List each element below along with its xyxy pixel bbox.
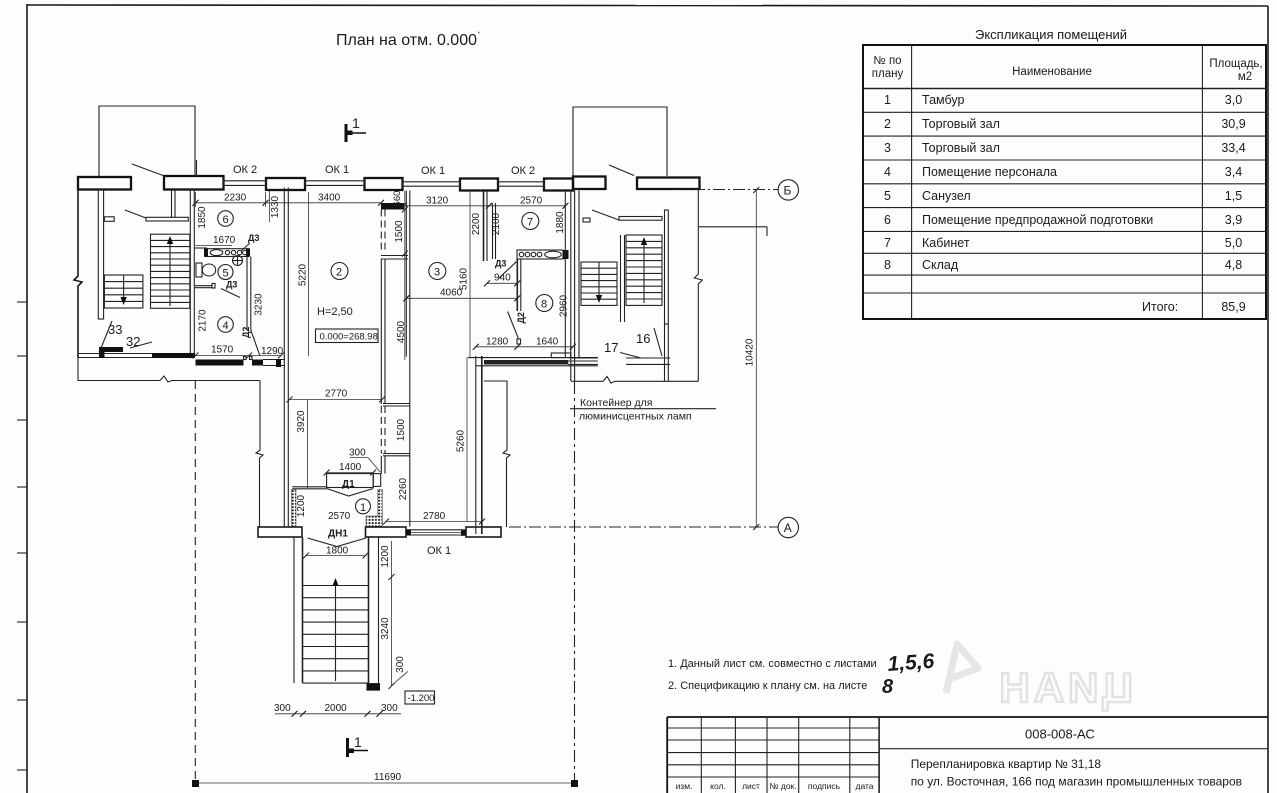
title block column labels: [676, 781, 874, 791]
svg-text:2960: 2960: [559, 294, 570, 317]
svg-text:2100: 2100: [491, 212, 502, 235]
svg-text:Торговый зал: Торговый зал: [922, 141, 1000, 155]
svg-text:7: 7: [884, 236, 891, 250]
left canopy outline: [99, 106, 195, 176]
svg-text:1800: 1800: [326, 546, 349, 557]
svg-text:кол.: кол.: [710, 781, 726, 791]
svg-text:1880: 1880: [555, 211, 566, 234]
svg-text:16: 16: [636, 331, 650, 346]
room8 east wall (double): [565, 191, 571, 382]
left canopy inner jamb: [196, 160, 198, 177]
svg-text:6: 6: [223, 214, 229, 226]
room5/6 divider: [195, 247, 207, 249]
svg-text:1200: 1200: [296, 494, 307, 517]
left canopy door swing: [132, 164, 163, 176]
svg-text:3400: 3400: [318, 193, 341, 204]
door D3 leader: [241, 243, 250, 251]
staircase west inner wall: [98, 190, 103, 319]
level mark -1.200: [405, 691, 435, 704]
door D2 swing (room4): [251, 330, 260, 356]
svg-text:3240: 3240: [380, 617, 391, 640]
svg-text:3230: 3230: [254, 293, 265, 316]
right block south wall segment 1: [571, 358, 598, 364]
dim 3920 (vertical): [296, 400, 308, 489]
svg-text:1330: 1330: [270, 195, 281, 218]
svg-text:1: 1: [354, 734, 362, 750]
svg-text:3,0: 3,0: [1225, 93, 1242, 107]
svg-text:люминисцентных ламп: люминисцентных ламп: [579, 411, 692, 423]
svg-text:Д3: Д3: [248, 233, 259, 243]
staircase handrail stub: [583, 218, 590, 222]
svg-text:2230: 2230: [224, 193, 247, 204]
stair left rail: [294, 538, 303, 684]
left stairs up arrow: [167, 236, 173, 306]
room 8 number circle: [536, 295, 553, 312]
svg-text:3: 3: [434, 267, 440, 279]
staircase south wall lines: [78, 354, 195, 358]
axis dim line 10420: [745, 187, 760, 530]
svg-text:1400: 1400: [339, 462, 362, 473]
svg-text:1: 1: [884, 93, 891, 107]
tambour east partition junction (dotted): [366, 516, 382, 527]
section mark 1 (bottom): [348, 734, 369, 757]
room 1 number circle: [356, 499, 371, 514]
svg-text:Д1: Д1: [342, 479, 355, 490]
svg-text:1290: 1290: [261, 346, 284, 357]
svg-text:300: 300: [274, 703, 291, 714]
svg-text:0.000=268.98: 0.000=268.98: [320, 332, 378, 343]
svg-text:3,9: 3,9: [1225, 213, 1242, 227]
door D3 swing (room7/8): [499, 262, 516, 278]
svg-text:11690: 11690: [374, 772, 402, 783]
dim 1800: [303, 546, 369, 559]
axis B dash-dot line: [673, 189, 778, 191]
svg-text:30,9: 30,9: [1221, 117, 1245, 131]
title block grid verticals: [701, 717, 879, 793]
svg-text:1500: 1500: [396, 418, 407, 441]
svg-text:№ док.: № док.: [769, 781, 796, 791]
svg-text:Д2: Д2: [241, 327, 251, 338]
svg-text:4: 4: [223, 320, 229, 332]
room3 extension east wall (double): [476, 356, 482, 534]
svg-text:8: 8: [541, 299, 547, 311]
room2 west wall (double): [284, 188, 288, 527]
tambour north wall lines: [292, 487, 326, 489]
dim 2780: [383, 511, 485, 525]
svg-text:008-008-АС: 008-008-АС: [1025, 727, 1095, 742]
svg-text:85,9: 85,9: [1221, 300, 1245, 314]
svg-text:4060: 4060: [440, 288, 463, 299]
room2 east wall solid mid: [381, 259, 385, 404]
svg-text:Наименование: Наименование: [1012, 66, 1092, 78]
svg-text:33,4: 33,4: [1221, 141, 1245, 155]
dim 1330 (vertical): [270, 191, 282, 222]
dim 2770: [287, 389, 386, 403]
staircase south wall black segment: [152, 353, 195, 358]
table outer border: [863, 45, 1266, 319]
table header texts: [872, 55, 1263, 83]
svg-text:1850: 1850: [197, 206, 208, 229]
level mark box: [316, 329, 379, 343]
handrail stub: [104, 217, 114, 222]
svg-text:-1.200: -1.200: [408, 693, 435, 704]
wall stub at y405: [383, 404, 410, 407]
svg-text:17: 17: [604, 340, 618, 355]
dim 5160 (vertical line): [459, 188, 474, 360]
svg-text:ОК 1: ОК 1: [427, 545, 451, 557]
wall stub at y454: [383, 454, 410, 456]
stair dim line right: [389, 541, 395, 689]
door D1 jamb right: [373, 474, 381, 487]
svg-text:Контейнер для: Контейнер для: [580, 397, 653, 409]
wall pier 2: [164, 176, 224, 190]
dim 1640: [517, 337, 576, 350]
svg-text:4: 4: [884, 165, 891, 179]
svg-text:2. Спецификацию к плану см. на: 2. Спецификацию к плану см. на листе: [668, 680, 867, 692]
leader for 33: [101, 321, 112, 348]
dim 1280: [473, 337, 521, 350]
left stairs lower flight: [104, 275, 142, 308]
window OK2 no.1: [224, 180, 267, 187]
building bottom outline right (with break): [571, 377, 698, 384]
window OK2 no.2: [498, 181, 544, 188]
svg-text:Площадь,: Площадь,: [1209, 58, 1262, 70]
axis A dash-dot line: [509, 526, 778, 528]
svg-text:1670: 1670: [213, 235, 236, 246]
right stairs upper flight: [626, 235, 662, 305]
svg-text:2200: 2200: [471, 212, 482, 235]
dim 3400: [266, 193, 385, 206]
door D1 panel: [327, 474, 374, 488]
porch outline left (with break): [78, 358, 260, 383]
door D2 swing (room8): [508, 312, 519, 340]
wall pier 1: [78, 177, 131, 190]
svg-text:1,5: 1,5: [1225, 189, 1242, 203]
stair stringer: [621, 235, 625, 322]
leader for 16: [654, 328, 662, 356]
wall pier 5: [460, 179, 498, 191]
room 6 number circle: [218, 211, 234, 227]
south window end blocks: [406, 530, 411, 536]
stair right rail foot: [367, 683, 381, 691]
svg-text:1640: 1640: [536, 337, 559, 348]
svg-text:3,4: 3,4: [1225, 165, 1242, 179]
svg-text:Склад: Склад: [922, 258, 959, 272]
svg-text:300: 300: [381, 703, 398, 714]
svg-text:Торговый зал: Торговый зал: [922, 117, 1000, 131]
svg-text:Д3: Д3: [495, 259, 506, 269]
svg-text:5: 5: [223, 268, 229, 280]
left stairs upper flight: [151, 234, 190, 308]
staircase east wall (double): [190, 190, 194, 357]
svg-text:8: 8: [882, 676, 894, 698]
south wall black band 2: [252, 360, 263, 366]
door jamb mark room4: [212, 284, 215, 289]
dim 300 with leader: [349, 448, 380, 473]
svg-text:4,8: 4,8: [1225, 258, 1242, 272]
bottom stair dim line: [274, 703, 401, 717]
south wall pier mid rect: [366, 527, 407, 537]
dim 1670: [196, 235, 236, 246]
dim 5260 (vertical line): [456, 357, 468, 521]
lobby wall: [172, 190, 176, 218]
wall pier 6: [544, 179, 573, 191]
building east wall (with break): [694, 190, 702, 381]
door DN1 swing chevron: [308, 538, 367, 547]
room 4 number circle: [218, 317, 234, 333]
wall dashed upper opening: [381, 210, 385, 254]
right canopy outline: [573, 107, 667, 176]
svg-text:10420: 10420: [745, 338, 756, 366]
window OK1 no.2: [403, 181, 461, 188]
svg-text:2770: 2770: [325, 389, 348, 400]
wall pier 3: [266, 178, 305, 190]
svg-text:8: 8: [884, 258, 891, 272]
room8 south wall lines: [476, 361, 598, 366]
left stairs down arrow: [120, 275, 126, 305]
dim 2570 (top): [489, 196, 568, 209]
table rows: [884, 93, 1246, 314]
svg-text:Кабинет: Кабинет: [922, 236, 970, 250]
svg-text:ОК 1: ОК 1: [325, 164, 349, 176]
page frame right border: [1267, 6, 1269, 793]
svg-text:дата: дата: [855, 781, 873, 791]
dim 3120: [401, 196, 492, 209]
svg-text:ДН1: ДН1: [328, 529, 348, 540]
svg-text:Н=2,50: Н=2,50: [317, 306, 353, 318]
tambour east partition (dotted): [378, 490, 383, 527]
right stairs up arrow: [641, 237, 647, 303]
staircase landing rail: [619, 217, 662, 221]
dim extension lines room6: [196, 192, 266, 207]
window OK1 no.1: [305, 180, 365, 187]
porch left side wall (with break): [256, 381, 263, 527]
title block top border: [667, 716, 1268, 718]
svg-text:1280: 1280: [486, 337, 509, 348]
east tail wall line: [699, 227, 767, 236]
axis A circle: [778, 517, 798, 537]
room 5 number circle: [218, 265, 233, 280]
svg-text:5220: 5220: [298, 263, 309, 286]
south wall lines to room2: [263, 360, 285, 366]
wall pier 4: [365, 178, 403, 190]
svg-text:по ул. Восточная, 166 под мага: по ул. Восточная, 166 под магазин промыш…: [911, 775, 1242, 789]
rooms4/2 wall (double): [247, 257, 251, 331]
svg-text:ЦИАН: ЦИАН: [995, 664, 1133, 711]
dim 1290: [261, 346, 284, 357]
svg-text:5: 5: [884, 189, 891, 203]
tambour west partition (dotted): [292, 490, 297, 527]
svg-text:2780: 2780: [423, 511, 446, 522]
room2 east wall solid low: [381, 456, 385, 474]
table row lines: [863, 89, 1266, 294]
south wall door gap marks: [244, 357, 247, 360]
south wall rooms 4 black band: [196, 360, 244, 366]
page frame top border: [27, 5, 1268, 6]
staircase entry door swing: [125, 210, 146, 218]
svg-text:Итого:: Итого:: [1142, 300, 1178, 314]
dim 4060: [403, 288, 520, 302]
svg-text:2: 2: [336, 267, 342, 279]
svg-text:м2: м2: [1238, 71, 1252, 83]
svg-text:1: 1: [360, 502, 366, 514]
wall stub at y257: [381, 256, 408, 260]
svg-text:Д2: Д2: [516, 312, 526, 323]
room3 west wall (double): [406, 191, 410, 527]
dim 2230: [193, 193, 269, 206]
svg-text:1,5,6: 1,5,6: [887, 650, 936, 676]
section mark 1 (top): [346, 115, 366, 142]
svg-text:1500: 1500: [394, 220, 405, 243]
washbasin circle with cross: [233, 256, 243, 266]
staircase south wall black corner: [99, 347, 123, 358]
svg-text:Санузел: Санузел: [922, 189, 971, 203]
svg-text:3120: 3120: [426, 196, 449, 207]
svg-text:2170: 2170: [198, 309, 209, 332]
wall pocket black stub: [381, 203, 404, 210]
wall dashed lower opening: [381, 406, 385, 454]
south window OK1: [406, 530, 466, 535]
room 7 counter: [517, 250, 569, 259]
svg-text:подпись: подпись: [808, 781, 841, 791]
dim 5220 (vertical line): [298, 192, 309, 356]
stair treads: [303, 586, 369, 684]
stair right rail: [369, 538, 379, 684]
svg-text:2570: 2570: [520, 196, 543, 207]
room8 south wall top line: [468, 357, 598, 359]
staircase west wall (double): [575, 191, 579, 382]
south wall black bar: [276, 359, 281, 367]
svg-text:6: 6: [884, 213, 891, 227]
watermark logo triangle: [946, 644, 978, 693]
door jamb mark room8: [517, 339, 521, 344]
left exterior wall with break: [74, 190, 82, 359]
rooms 16 wall stub: [665, 324, 669, 381]
stair up arrow: [332, 578, 338, 681]
svg-text:940: 940: [494, 273, 511, 284]
wall corner pocket step: [551, 353, 571, 358]
svg-text:300: 300: [349, 448, 366, 459]
svg-text:5260: 5260: [456, 429, 467, 452]
svg-text:плану: плану: [872, 68, 904, 80]
svg-text:ОК 1: ОК 1: [421, 165, 445, 177]
svg-text:660: 660: [392, 191, 403, 207]
svg-text:ОК 2: ОК 2: [233, 164, 257, 176]
svg-text:лист: лист: [742, 781, 760, 791]
dim 300 with leader (stairs): [392, 656, 409, 686]
table column lines: [912, 45, 1203, 319]
svg-text:ОК 2: ОК 2: [511, 165, 535, 177]
svg-text:План на отм. 0.000`: План на отм. 0.000`: [336, 31, 481, 49]
fold tick marks on left border: [17, 302, 27, 770]
room 7 number circle: [522, 213, 539, 230]
svg-text:5,0: 5,0: [1225, 236, 1242, 250]
svg-text:Б: Б: [784, 184, 792, 198]
south wall pier right rect: [466, 527, 501, 537]
dim chain vertical line: [402, 191, 408, 360]
right stairs lower flight: [581, 262, 617, 305]
door D1 swing chevron: [327, 489, 374, 497]
svg-text:Д3: Д3: [226, 280, 237, 290]
svg-text:Экспликация помещений: Экспликация помещений: [975, 27, 1127, 42]
leader for 17: [620, 353, 641, 359]
svg-text:2260: 2260: [398, 477, 409, 500]
counter with sink (room 5): [204, 249, 250, 257]
door D3 swing (room4): [221, 289, 240, 298]
right canopy door swing: [609, 165, 634, 176]
svg-text:№ по: № по: [873, 55, 901, 67]
svg-text:1: 1: [352, 115, 360, 131]
lower outline right side (with break): [484, 381, 510, 527]
svg-text:2570: 2570: [328, 511, 351, 522]
leader for 32: [130, 342, 152, 348]
svg-text:А: А: [784, 521, 792, 535]
title block doc number divider: [879, 748, 1268, 750]
extension dashed line left: [194, 381, 196, 786]
room5/4 divider wall: [195, 286, 212, 288]
page frame left border: [26, 4, 28, 793]
dim line 11690: [192, 772, 578, 787]
svg-text:1200: 1200: [380, 545, 391, 568]
wall pier 7: [573, 177, 606, 190]
room 3 number circle: [429, 263, 446, 280]
svg-text:7: 7: [527, 217, 533, 229]
dim 940: [484, 273, 520, 287]
svg-text:Помещение предпродажной подгот: Помещение предпродажной подготовки: [922, 213, 1153, 227]
svg-text:4500: 4500: [396, 320, 407, 343]
axis B circle: [778, 180, 798, 200]
svg-text:1570: 1570: [211, 345, 234, 356]
toilet: [196, 263, 216, 277]
svg-text:изм.: изм.: [676, 781, 693, 791]
right block south wall segment 2: [626, 358, 670, 364]
porch wall left rect: [258, 527, 302, 537]
landing rail: [146, 217, 188, 221]
svg-text:Помещение персонала: Помещение персонала: [922, 165, 1057, 179]
title block left border: [666, 717, 668, 793]
duct wall lines: [493, 203, 496, 259]
staircase entry door swing: [592, 210, 619, 220]
svg-text:Тамбур: Тамбур: [922, 93, 964, 107]
svg-text:3920: 3920: [296, 410, 307, 433]
svg-text:Перепланировка квартир № 31,18: Перепланировка квартир № 31,18: [911, 757, 1102, 771]
svg-text:1. Данный лист см. совместно с: 1. Данный лист см. совместно с листами: [668, 658, 877, 670]
svg-text:2: 2: [884, 117, 891, 131]
extension dashed line right: [574, 382, 576, 786]
room3/7 wall (double): [484, 191, 488, 261]
staircase east inner wall: [665, 210, 669, 324]
dim 1570: [193, 345, 285, 359]
room8 south wall dark band: [484, 360, 568, 365]
right stairs down arrow: [596, 262, 602, 303]
room 2 number circle: [331, 263, 348, 280]
wall pier 8: [637, 178, 700, 190]
svg-text:3: 3: [884, 141, 891, 155]
svg-text:2000: 2000: [325, 703, 348, 714]
title block grid horizontals: [667, 728, 879, 777]
svg-text:300: 300: [395, 656, 406, 673]
container note underline: [570, 408, 716, 410]
dim 1400: [324, 462, 377, 476]
room8 west wall (double): [517, 260, 521, 312]
